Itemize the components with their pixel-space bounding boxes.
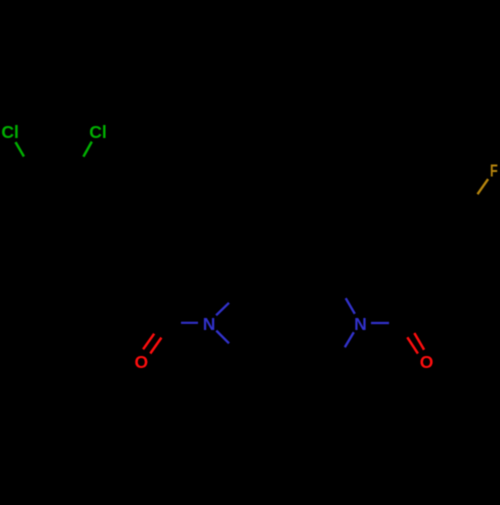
svg-text:O: O: [135, 352, 149, 372]
bond C-Cl half (right): [83, 142, 91, 157]
svg-text:O: O: [420, 352, 434, 372]
bond N7-C(=O) half (horizontal): [371, 322, 389, 324]
double bond C=O halves (right carbonyl): [407, 337, 418, 353]
svg-text:Cl: Cl: [89, 122, 107, 142]
svg-text:N: N: [203, 314, 216, 334]
bond N7-C6 half (up-left): [346, 298, 355, 314]
bond C-F half: [478, 179, 489, 194]
bond N2-C3 azetidine half (down-right): [216, 331, 229, 344]
svg-text:Cl: Cl: [1, 122, 19, 142]
bond C-Cl half (left): [16, 142, 24, 156]
bond N2-C(=O) half (horizontal): [181, 322, 198, 324]
double bond C=O halves (left carbonyl): [143, 334, 154, 350]
bond N2-C1 azetidine half (up-right): [216, 303, 229, 316]
svg-text:F: F: [490, 161, 498, 181]
bond N7-C8 half (down-left): [345, 332, 354, 347]
svg-text:N: N: [354, 314, 367, 334]
